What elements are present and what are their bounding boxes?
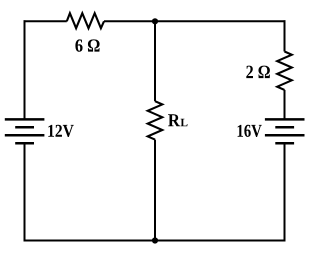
label RL (168, 114, 180, 126)
wire left upper (corner down to battery V1) (24, 20, 26, 119)
wire top-left (corner to resistor R1) (25, 20, 67, 21)
label 6 ohm (75, 39, 99, 51)
resistor R1 6-ohm zigzag (67, 13, 104, 28)
wire right upper (corner down to resistor R2) (284, 20, 286, 51)
resistor R2 2-ohm zigzag (277, 52, 292, 90)
wire top-right (node A to top-right corner) (155, 20, 286, 22)
wire left lower (battery V1 to bottom-left corner) (24, 143, 26, 241)
wire bottom-left (corner to node B) (25, 240, 156, 242)
label 12V (48, 125, 73, 137)
wire right middle (resistor R2 down to battery V2) (284, 90, 286, 120)
wire top-middle (resistor R1 to node A) (104, 20, 155, 22)
node A (top junction dot) (152, 18, 158, 24)
resistor RL zigzag (148, 101, 163, 139)
label 2 ohm (246, 66, 270, 78)
battery V1 12V plates (5, 119, 45, 143)
label 16V (238, 125, 262, 137)
wire right lower (battery V2 to bottom-right corner) (284, 143, 286, 241)
node B (bottom junction dot) (152, 237, 158, 243)
wire bottom-right (node B to bottom-right corner) (155, 240, 286, 242)
battery V2 16V plates (265, 119, 305, 143)
wire middle upper (node A down to resistor RL) (154, 21, 156, 101)
wire middle lower (resistor RL to node B) (154, 140, 156, 241)
